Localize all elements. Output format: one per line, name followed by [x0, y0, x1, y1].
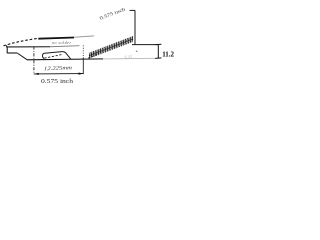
extension line lower — [82, 58, 84, 74]
dashed band lower edge — [88, 54, 98, 58]
bottom edge line — [27, 58, 103, 61]
svg-text:11.2: 11.2 — [162, 51, 174, 59]
svg-text:0.575 inch: 0.575 inch — [41, 79, 73, 85]
gray top edge continuation — [74, 36, 94, 37]
left end edge — [6, 47, 8, 53]
dimension line with arrows — [34, 73, 83, 76]
svg-text:6.35: 6.35 — [125, 54, 133, 59]
body top line (left) — [7, 46, 50, 48]
dashed rotation arc — [4, 38, 38, 45]
body top line (gray right) — [50, 46, 80, 47]
bottom ledge — [7, 52, 17, 54]
faint bottom extension line — [103, 57, 156, 60]
bracket vertical line — [134, 10, 136, 44]
svg-text:no solder: no solder — [52, 40, 71, 45]
bracket horizontal line — [132, 44, 158, 46]
svg-text:12.225mm: 12.225mm — [44, 65, 72, 72]
thick top edge line — [38, 38, 74, 39]
chamfer edge — [17, 53, 27, 60]
centerline (dash-dot) — [33, 46, 35, 74]
height dimension I-bar — [155, 44, 161, 58]
wedge outline (closed flap) — [42, 52, 70, 60]
small gray dot — [136, 51, 138, 53]
top-left corner tick — [6, 45, 8, 47]
hatched raised flap band — [88, 36, 135, 58]
dotted extension line upper — [82, 45, 84, 58]
bracket top tick — [130, 9, 135, 11]
